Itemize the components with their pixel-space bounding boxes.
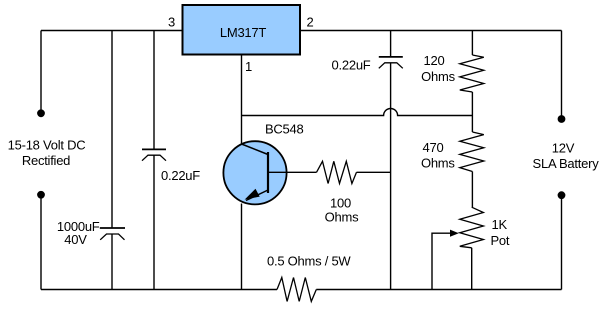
svg-text:Rectified: Rectified bbox=[22, 153, 70, 168]
resistor R2 470 Ohms bbox=[460, 132, 484, 172]
svg-text:15-18 Volt DC: 15-18 Volt DC bbox=[8, 138, 86, 153]
svg-text:0.5 Ohms / 5W: 0.5 Ohms / 5W bbox=[267, 254, 351, 269]
svg-text:SLA Battery: SLA Battery bbox=[533, 156, 600, 171]
node input + terminal bbox=[37, 109, 45, 117]
capacitor C1 wire lower bbox=[111, 234, 113, 290]
wire base resistor to vertical bbox=[357, 171, 391, 173]
svg-text:12V: 12V bbox=[552, 141, 575, 156]
capacitor C3 wire lower bbox=[390, 63, 392, 290]
pot wiper arrow bbox=[450, 230, 459, 237]
wire left input vertical lower bbox=[40, 195, 42, 290]
wire top-right rail bbox=[300, 30, 562, 32]
wire right battery vertical lower bbox=[561, 195, 563, 289]
svg-text:Ohms: Ohms bbox=[421, 69, 455, 84]
svg-text:2: 2 bbox=[307, 15, 314, 30]
wire pin1 vertical bbox=[241, 55, 243, 145]
wire 120 to 470 bbox=[471, 92, 473, 132]
transistor Q1 BC548 body bbox=[223, 141, 286, 204]
capacitor C2 plates bbox=[142, 148, 166, 150]
resistor R5 0.5 Ohms 5W bbox=[277, 278, 316, 302]
svg-text:Ohms: Ohms bbox=[325, 210, 359, 225]
resistor R1 120 Ohms bbox=[460, 55, 484, 92]
capacitor C1 1000uF wire upper bbox=[111, 31, 113, 229]
svg-text:Ohms: Ohms bbox=[421, 156, 455, 171]
capacitor C1 plates bbox=[100, 227, 125, 229]
svg-text:0.22uF: 0.22uF bbox=[332, 58, 371, 73]
wire bottom rail right bbox=[316, 289, 561, 291]
node input - terminal bbox=[37, 191, 45, 199]
transistor Q1 base bar bbox=[267, 152, 269, 193]
svg-text:1K: 1K bbox=[492, 217, 508, 232]
svg-text:100: 100 bbox=[330, 196, 351, 211]
wire base lead bbox=[268, 171, 317, 173]
svg-text:120: 120 bbox=[424, 53, 445, 68]
transistor Q1 emitter arrow bbox=[245, 189, 260, 200]
wire top-left rail bbox=[41, 30, 183, 32]
capacitor C3 0.22uF wire upper bbox=[390, 31, 392, 57]
wire right battery vertical upper bbox=[561, 31, 563, 120]
svg-text:Pot: Pot bbox=[491, 233, 510, 248]
node battery + terminal bbox=[558, 115, 566, 123]
potentiometer R3 1K bbox=[460, 207, 484, 248]
wire 120 ohm top bbox=[471, 31, 473, 56]
capacitor C3 plates bbox=[379, 56, 403, 58]
transistor Q1 emitter bbox=[246, 190, 268, 201]
wire pot wiper bbox=[432, 233, 450, 289]
wire bottom rail left bbox=[41, 289, 277, 291]
wire 470 to pot bbox=[471, 172, 473, 208]
capacitor C2 wire lower bbox=[153, 155, 155, 289]
wire emitter vertical bbox=[241, 204, 243, 290]
svg-text:1: 1 bbox=[245, 59, 252, 74]
svg-text:3: 3 bbox=[168, 15, 175, 30]
capacitor C2 0.22uF wire upper bbox=[153, 31, 155, 150]
svg-text:0.22uF: 0.22uF bbox=[161, 168, 200, 183]
regulator U1 LM317T bbox=[183, 5, 301, 55]
svg-text:BC548: BC548 bbox=[265, 122, 304, 137]
wire left input vertical upper bbox=[40, 31, 42, 114]
transistor Q1 collector bbox=[242, 144, 269, 155]
svg-text:LM317T: LM317T bbox=[220, 25, 266, 40]
wire pot bottom bbox=[471, 248, 473, 290]
svg-text:40V: 40V bbox=[64, 232, 87, 247]
node battery - terminal bbox=[558, 191, 566, 199]
svg-text:470: 470 bbox=[423, 140, 444, 155]
wire adj horizontal with hop bbox=[242, 109, 473, 116]
resistor R4 100 Ohms bbox=[317, 161, 357, 183]
